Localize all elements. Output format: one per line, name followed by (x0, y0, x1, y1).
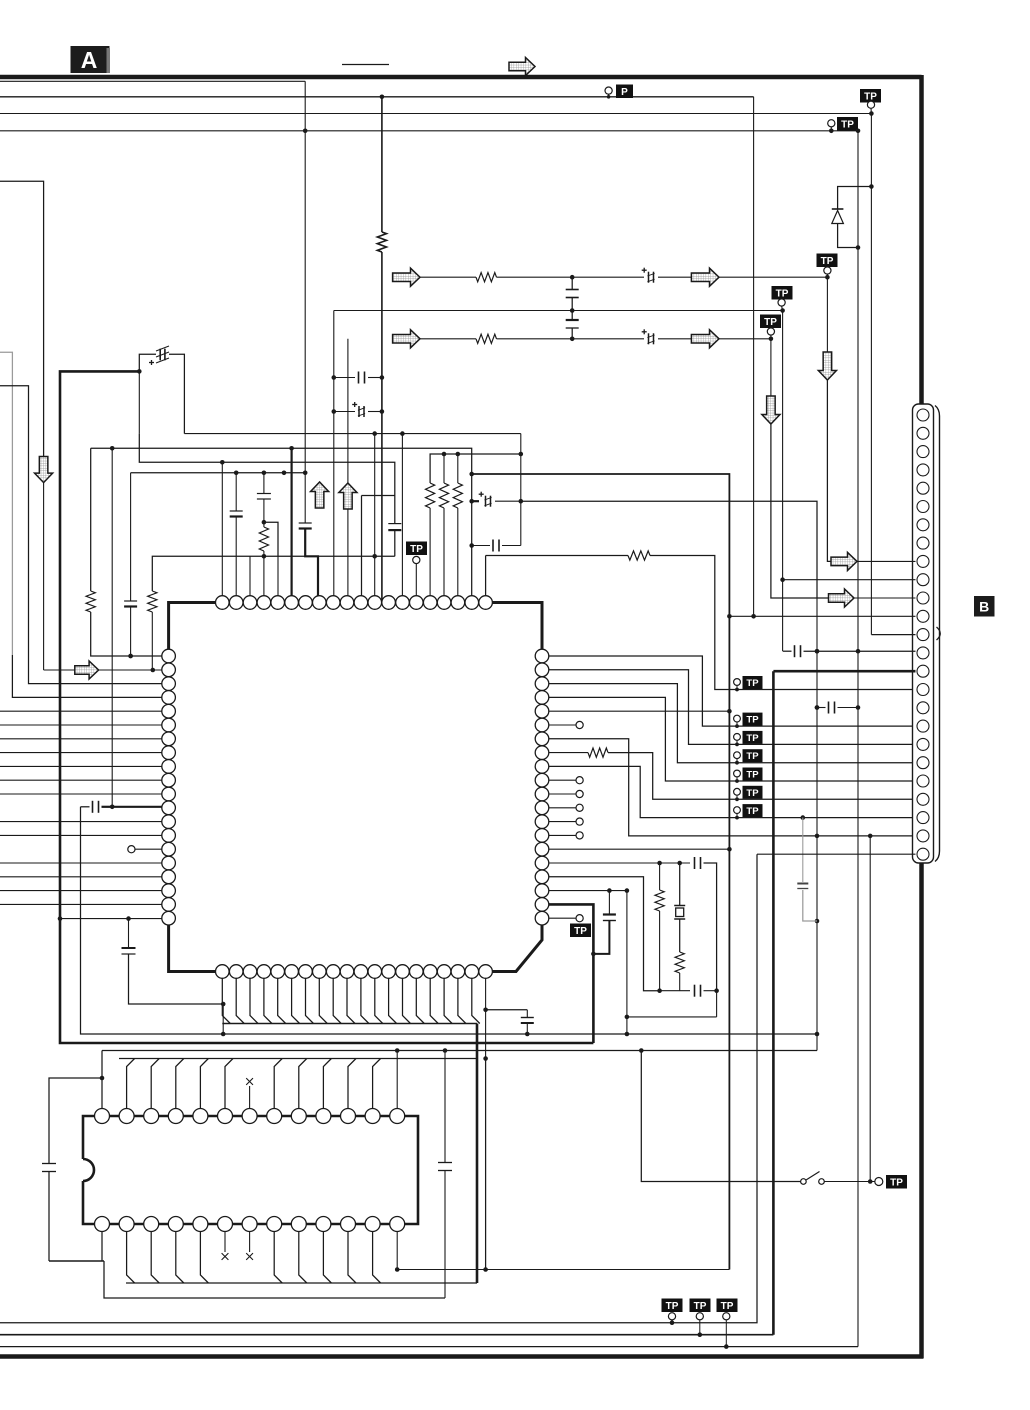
IC U1 top pins (216, 596, 230, 610)
svg-text:TP: TP (746, 788, 759, 799)
wire row1 b (497, 276, 645, 278)
svg-text:A: A (81, 47, 98, 73)
IC U2 DIP body (83, 1116, 418, 1224)
wire pin j0 (221, 462, 223, 602)
capacitor C9 v236 (235, 473, 237, 511)
test point TP10 bottom (717, 1299, 738, 1313)
capacitor C21 dip left (49, 1078, 102, 1164)
arrow down v827 (818, 352, 836, 380)
wire tp v827 (826, 277, 828, 352)
wire row1 a (420, 276, 476, 278)
resistor R2 row1 (476, 273, 497, 282)
wire row2 b (497, 338, 645, 340)
wire rpin6 (549, 739, 916, 836)
wire row2 d (719, 338, 771, 340)
stub rpin11 nc (549, 807, 576, 809)
wire v817 mid (816, 598, 818, 1034)
arrow conn row561 (831, 552, 857, 570)
stub rpin13 nc (549, 834, 576, 836)
section label B (974, 596, 995, 617)
wire pin j13 (401, 434, 403, 603)
wire pin j11 (374, 434, 376, 603)
wire rpin2 (549, 684, 916, 763)
svg-text:TP: TP (821, 256, 834, 267)
capacitor C14 row545 (472, 545, 490, 547)
wire v348 row2 corner (347, 339, 349, 482)
wire conn row616 (729, 615, 915, 617)
resistor R9 row555 (628, 551, 650, 560)
outer border right lower (919, 862, 924, 1358)
wire v817 lower (816, 1034, 818, 1051)
capacitor C1 h377 (334, 377, 355, 379)
capacitor C12 v395 (362, 495, 395, 497)
IC U1 left pins (162, 649, 176, 663)
wires bottom pin drops (222, 978, 230, 1023)
wire top row2 (0, 96, 754, 98)
resistor R13 v680 (675, 952, 684, 973)
wire v871 (870, 114, 872, 635)
wire rpin7 b (608, 753, 916, 800)
switch SW1 (801, 1179, 807, 1185)
test point TP9 bottom (690, 1299, 711, 1313)
arrow row2 left (393, 330, 420, 348)
diode D1 (832, 208, 844, 210)
arrow row1 right (691, 268, 719, 286)
capacitor C17 row863 (694, 857, 696, 869)
wire pin j4 (277, 556, 279, 602)
wire row448 (91, 448, 472, 602)
wire conn row651 (783, 650, 792, 652)
wire rpin3 (549, 697, 916, 781)
wire diode bottom (838, 224, 858, 248)
capacitor C10 v264 (263, 473, 265, 494)
arrow down left (35, 457, 53, 483)
wire pin j3 (263, 556, 265, 602)
capacitor C16 v128 (128, 919, 130, 948)
wire row1050 (102, 1050, 817, 1052)
wire row2 c (658, 338, 691, 340)
wire pin j5 thick (291, 448, 293, 602)
arrow into pin row2 (75, 661, 99, 679)
wire rpin18 thick (549, 904, 594, 1043)
capacitor C24 grey (802, 818, 804, 882)
wire pin j9 (347, 482, 349, 483)
bus bottom qfp (222, 1023, 477, 1025)
resistor R6 trio1 (426, 483, 435, 508)
resistor R7 trio2 (443, 454, 445, 483)
svg-text:TP: TP (666, 1301, 679, 1312)
wire left feed1 cont (43, 483, 45, 670)
wire row454 (430, 454, 521, 483)
wire rpin8 (549, 766, 916, 817)
capacitor C8 v131 (124, 600, 137, 602)
resistor R10 v91 (86, 591, 95, 612)
arrow row1 left (393, 268, 420, 286)
svg-text:B: B (979, 599, 989, 615)
arrow up j7 (311, 482, 329, 508)
arrow conn row598 (829, 589, 855, 607)
resistor R5 v152 (148, 591, 157, 612)
wire v382 lower (381, 252, 383, 603)
outer border right upper (919, 75, 924, 405)
IC U1 QFP body (169, 603, 542, 972)
svg-text:TP: TP (776, 289, 789, 300)
capacitor C15 row807 (81, 806, 90, 808)
test point TP7 v827 (817, 254, 838, 268)
svg-text:TP: TP (746, 733, 759, 744)
capacitor C23 row707 (817, 707, 826, 709)
power v773 thick (772, 671, 775, 1334)
wire conn row854 (757, 853, 916, 855)
wire switch right (824, 1181, 874, 1183)
wire row1 d (719, 276, 827, 278)
wire row1017 (627, 1016, 717, 1018)
arrow down v771 (762, 396, 780, 424)
wires dip bottom drops (101, 1232, 103, 1262)
wire row1261 corner (104, 1261, 445, 1298)
svg-text:TP: TP (746, 770, 759, 781)
wire v627 (626, 891, 628, 1034)
wire arrow to pin (99, 669, 162, 671)
wire rpin14 (549, 848, 730, 850)
resistor R3 row2 (476, 334, 497, 343)
capacitor C20 v527 (486, 1009, 528, 1011)
wire tp v827 b (827, 380, 831, 561)
stub left nc (135, 848, 162, 850)
junction row1335 (698, 1332, 703, 1337)
wire rowQ (521, 501, 817, 598)
wire v870 (869, 836, 871, 1182)
capacitor C3 pol row1 (648, 272, 650, 283)
wire tp v782 (782, 311, 784, 652)
wire conn row580 (783, 579, 916, 581)
stub rpin12 nc (549, 821, 576, 823)
test points TP column (734, 715, 741, 722)
stub rpin10 nc (549, 793, 576, 795)
wire jog r4 (264, 522, 278, 556)
connector bracket (937, 627, 941, 640)
wire v139 row462 left (138, 371, 140, 433)
capacitor C5 between rows (571, 311, 573, 321)
capacitor C6 pol row2 (648, 333, 650, 344)
wire j19 to dip row (485, 1059, 487, 1270)
power rail v60 (60, 371, 593, 1043)
svg-text:TP: TP (764, 317, 777, 328)
outer border bottom (0, 1354, 924, 1359)
wire v80 (81, 807, 818, 1034)
wire conn row671 thick (773, 670, 915, 673)
capacitor C13 pol row501 (472, 500, 479, 502)
wire rpin1 (549, 670, 916, 745)
sheet label A (71, 46, 110, 73)
resistor R12 v660 (659, 863, 661, 890)
wire rowP (472, 474, 730, 1270)
wire rpin17 (549, 890, 627, 892)
wire v131 cap (130, 473, 132, 601)
connector J1 pins (917, 409, 929, 421)
header tick line (342, 64, 389, 66)
capacitor C7 pol loop (139, 354, 156, 371)
wires dip top risers (101, 1051, 103, 1109)
wire switch net (641, 1051, 800, 1182)
wire pin j2 (249, 556, 251, 602)
wire jog c11 thick (305, 529, 318, 603)
wire rpin15 xtal row (549, 862, 690, 864)
wire rpin0 (549, 656, 916, 726)
svg-text:TP: TP (746, 678, 759, 689)
arrow up j9 (339, 483, 357, 509)
svg-text:P: P (621, 87, 628, 98)
svg-text:TP: TP (410, 544, 423, 555)
resistor R4 v264 (259, 527, 268, 551)
wire v858 (857, 131, 859, 1347)
wire row1347 (0, 1346, 858, 1348)
wire rpin7 (549, 752, 588, 754)
wire row2 a (420, 338, 476, 340)
wire r5 to pinrow (151, 612, 153, 670)
capacitor C4 between rows (571, 277, 573, 289)
test point TP8 bottom (662, 1299, 683, 1313)
resistor R1 v382 (377, 232, 386, 252)
wire row1323 (0, 854, 757, 1322)
test point TP2 top right (860, 89, 881, 103)
IC U1 bottom pins (216, 965, 230, 979)
wire lpin19 row (60, 918, 162, 920)
wire row1 c (658, 276, 691, 278)
wire rpin4 (549, 710, 730, 712)
wire v223 (222, 1004, 224, 1034)
test point TP4 j14 (406, 542, 427, 556)
wire v334 stub (333, 311, 335, 603)
test point TP3 row4 (837, 117, 858, 131)
wire v382 upper (381, 97, 383, 232)
wire conn row635 (871, 634, 915, 636)
wire left feed2 (0, 386, 162, 684)
svg-text:TP: TP (746, 751, 759, 762)
IC U2 top pins (95, 1109, 110, 1124)
stub rpin19 tp (549, 917, 576, 919)
arrow row2 right (691, 330, 719, 348)
stub rpin5 nc (549, 724, 576, 726)
capacitor C19 row991 (660, 990, 690, 992)
capacitor C2 pol h411 (334, 411, 355, 413)
wire v521 (520, 434, 522, 546)
header arrow (509, 57, 535, 75)
test point TP6 v782 (772, 286, 793, 300)
outer border top (0, 75, 922, 80)
wire mid row (334, 310, 572, 312)
test point TP5 v771 (760, 315, 781, 329)
resistor R8 trio3 (457, 454, 459, 483)
svg-text:TP: TP (841, 120, 854, 131)
svg-text:TP: TP (694, 1301, 707, 1312)
IC U1 right pins (535, 649, 549, 663)
wire row555 b (650, 556, 916, 690)
wire row473 (131, 472, 306, 474)
wire row433 (184, 433, 520, 435)
wire left feed1 (0, 181, 44, 456)
wire row462 (139, 434, 394, 496)
junction row4-diode line (856, 129, 861, 134)
IC U2 bottom pins (95, 1217, 110, 1232)
stub rpin9 nc (549, 779, 576, 781)
svg-text:TP: TP (574, 926, 587, 937)
capacitor C18 v609 (608, 891, 610, 915)
resistor R11 row753 (588, 748, 608, 757)
wire top row4 (0, 130, 858, 132)
capacitor C22 dip right (444, 1051, 446, 1163)
wires left pin rows (0, 710, 162, 712)
test point TP1 top (605, 87, 612, 94)
wire lpin0 (90, 448, 92, 591)
wire tp v771 b (771, 424, 829, 598)
wire row555 right (486, 556, 628, 603)
capacitor C11 v305 (304, 473, 306, 523)
wire left feed grey (0, 352, 12, 655)
bus busB (126, 1282, 477, 1284)
connector J1 body (913, 404, 934, 863)
svg-text:TP: TP (746, 715, 759, 726)
wire v112 (111, 448, 113, 807)
wire rpin16 (549, 877, 660, 991)
wire trio to pins (429, 508, 431, 603)
crystal Y1 (679, 863, 681, 906)
wire pin j19 drop (485, 978, 487, 1058)
wire v305 from row1 (304, 81, 306, 473)
svg-text:TP: TP (890, 1178, 903, 1189)
wire v753 (753, 97, 755, 617)
wire top row1 (0, 80, 305, 82)
test point TP row690 (734, 679, 741, 686)
wire diode top (838, 187, 872, 210)
wire row556 (152, 556, 394, 591)
wire tp v771 (770, 339, 772, 396)
wire top row3 (0, 113, 871, 115)
wire busA (119, 1058, 477, 1060)
power v477 thick (476, 1024, 479, 1284)
svg-text:TP: TP (721, 1301, 734, 1312)
svg-text:TP: TP (746, 806, 759, 817)
wire lpin0 b (91, 612, 162, 656)
